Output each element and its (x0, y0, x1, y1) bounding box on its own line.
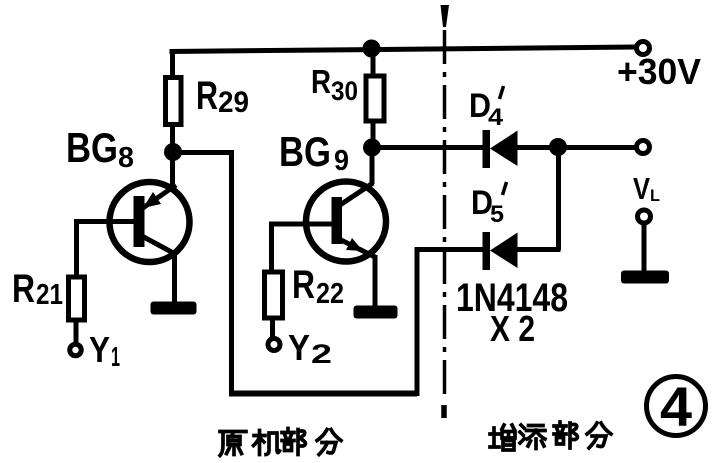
wire: BG8 collector to ground (172, 252, 177, 303)
resistor R30 (366, 76, 384, 121)
label D4' (469, 86, 504, 131)
wire: D5 right (516, 247, 561, 252)
ground: BG8 (151, 302, 197, 315)
terminal +30V (637, 42, 650, 55)
svg-text:1: 1 (111, 341, 120, 372)
svg-text:Y: Y (89, 329, 110, 370)
terminal Y2 (268, 339, 280, 351)
node B junction dot (BG9 collector / R30) (363, 139, 381, 157)
wire: R30 top stub (371, 49, 376, 78)
diode D4 (483, 130, 518, 168)
svg-text:R: R (292, 263, 315, 307)
svg-text:5: 5 (490, 201, 504, 228)
wire: VL ground stem (642, 222, 647, 272)
resistor R21 (69, 277, 85, 320)
wire: right riser (415, 250, 420, 397)
wire: node A to right drop (171, 153, 232, 394)
svg-text:V: V (633, 171, 650, 206)
wire: R29 bottom stub (170, 124, 175, 154)
svg-text:+30V: +30V (617, 51, 701, 92)
wire: node C to VL terminal (558, 145, 635, 150)
wire: R29 top stub (170, 50, 175, 79)
node A junction dot (BG8 collector / R29) (164, 143, 182, 161)
ground: BG9 (354, 306, 398, 319)
wire: BG9 base to R22 (272, 224, 333, 273)
caption 原机部分 (220, 429, 341, 456)
svg-text:R: R (311, 63, 331, 100)
svg-text:X 2: X 2 (490, 308, 535, 349)
wire: node C drop to D5 (556, 147, 561, 250)
wire: +30V top rail (170, 47, 638, 52)
svg-text:R: R (196, 74, 218, 118)
wire: D4 to node C (516, 145, 559, 150)
boundary dash-dot centerline (441, 5, 450, 418)
svg-text:BG: BG (279, 128, 331, 175)
terminal VL ground top (638, 210, 651, 223)
svg-text:8: 8 (118, 142, 134, 174)
wire: node A to BG8 (170, 152, 175, 187)
wire: R30 bottom stub (371, 120, 376, 149)
wire: bottom run (229, 391, 417, 397)
junction dot: R30 top / rail (363, 40, 381, 58)
svg-text:4: 4 (488, 104, 504, 131)
ground: VL (621, 271, 669, 284)
terminal VL line (637, 141, 650, 154)
transistor BG9 (306, 182, 386, 262)
wire: BG9 emitter stub (370, 148, 375, 184)
svg-text:21: 21 (36, 279, 63, 311)
wire: R22 to Y2 (270, 318, 275, 340)
svg-text:2: 2 (311, 339, 332, 369)
resistor R29 (166, 78, 182, 125)
caption 增添部分 (490, 422, 611, 450)
svg-text:R: R (12, 267, 35, 311)
svg-text:9: 9 (334, 145, 349, 177)
diode D5 (483, 232, 518, 270)
label D5' (471, 182, 507, 228)
svg-text:4: 4 (660, 375, 692, 438)
svg-text:29: 29 (218, 86, 249, 119)
label VL (633, 171, 660, 206)
svg-text:Y: Y (288, 327, 310, 368)
svg-text:L: L (650, 186, 660, 205)
wire: BG9 collector to ground (373, 255, 378, 307)
wire: R21 to Y1 (74, 320, 79, 346)
svg-text:22: 22 (316, 278, 344, 310)
wire: node B to D4 (372, 145, 484, 150)
wire: riser to D5 (415, 247, 485, 252)
wire: BG8 base to R21 (77, 222, 135, 279)
figure number 4 (circled) (647, 375, 706, 438)
transistor BG8 (110, 182, 190, 262)
resistor R22 (265, 272, 283, 318)
terminal Y1 (70, 344, 82, 356)
node C junction dot (549, 138, 567, 156)
svg-text:BG: BG (66, 124, 118, 171)
svg-text:30: 30 (331, 76, 358, 106)
